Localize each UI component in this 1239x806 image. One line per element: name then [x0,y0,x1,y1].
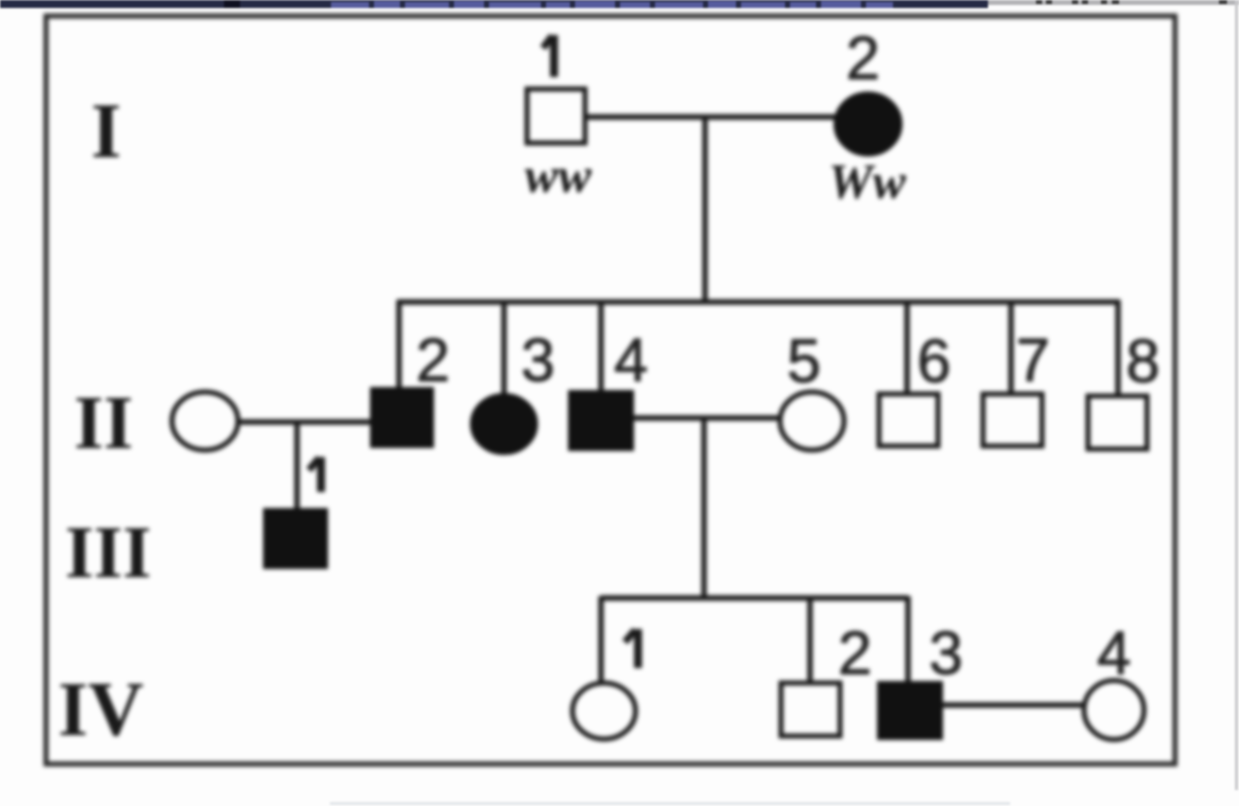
label 1 of I-1 [543,35,554,77]
svg-text:Ww: Ww [828,153,906,209]
gray-strip digit fragments [1036,0,1227,4]
svg-text:3: 3 [521,326,555,394]
individual II-4 (affected male, filled square) [569,391,633,450]
drop line to II-7 [1008,302,1013,394]
couple line II-1 to II-2 [238,419,373,424]
drop line to II-2 [396,300,401,390]
svg-text:I: I [91,87,121,174]
individual III-1 (affected male, filled square) [264,509,327,568]
individual II-7 (unaffected male, square) [983,394,1042,446]
individual IV-3 (affected male, filled square) [878,682,942,739]
couple line IV-3 to IV-4 [942,702,1083,707]
individual IV-1 (unaffected female, circle) [573,683,636,739]
top-right gray strip [988,0,1239,5]
individual II-5 (unaffected female, circle) [780,392,844,450]
descent line from couple II-4/II-5 to sibship IV [701,418,706,600]
individual II-6 (unaffected male, square) [879,394,938,446]
descent line from couple I to sibship II [702,117,707,304]
svg-text:5: 5 [787,327,821,395]
couple line I-1 to I-2 [586,114,836,119]
dark glyph blob in header [224,0,240,8]
sibship line generation II [397,299,1120,304]
svg-text:7: 7 [1016,326,1050,394]
svg-text:3: 3 [929,619,963,687]
drop line to II-3 [501,302,506,396]
drop line to II-6 [904,302,909,394]
individual I-1 (unaffected male, square) [527,89,585,143]
individual IV-2 (unaffected male, square) [781,683,840,736]
individual IV-4 (unaffected female, circle) [1084,681,1144,740]
drop line to II-8 [1115,300,1120,396]
individual II-1 (unaffected female, circle) [172,392,238,450]
svg-text:6: 6 [917,327,951,395]
svg-text:III: III [65,512,151,594]
drop line to IV-1 [598,596,603,682]
label 1 of IV-1 [625,629,638,668]
individual II-3 (affected female, filled circle) [471,394,537,454]
svg-text:4: 4 [1097,619,1131,687]
descent line from couple II-1/II-2 to III-1 [294,422,299,512]
sibship line generation IV [601,595,908,600]
drop line to IV-2 [807,598,812,683]
bottom faint rule [330,802,1010,805]
individual II-8 (unaffected male, square) [1088,396,1147,449]
individual II-2 (affected male, filled square) [371,388,433,447]
svg-text:IV: IV [58,666,144,752]
svg-text:8: 8 [1126,327,1160,395]
svg-text:2: 2 [416,326,450,394]
drop line to II-4 [598,302,603,393]
top navy header bar [0,0,988,8]
individual I-2 (affected female, filled circle) [835,93,901,155]
svg-text:2: 2 [846,24,880,92]
svg-text:4: 4 [614,326,648,394]
label 1 of III-1 [309,457,321,492]
drop line to IV-3 [905,596,910,683]
right scrollbar hairline [1235,0,1238,790]
svg-text:ww: ww [525,147,592,203]
header link text bottoms (clipped blue title text) [331,1,893,8]
svg-text:II: II [74,381,133,465]
couple line II-4 to II-5 [633,415,779,420]
svg-text:2: 2 [838,619,872,687]
